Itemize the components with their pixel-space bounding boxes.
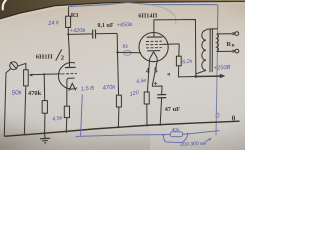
pentode grid g3 dashed	[146, 40, 162, 42]
svg-text:1,5 В: 1,5 В	[81, 86, 95, 93]
transformer T1 primary	[202, 29, 206, 70]
blue ellipse under Kc	[123, 51, 131, 56]
blue bottom line right	[188, 131, 220, 134]
dark table band top-left	[0, 0, 245, 19]
svg-text:6П14П: 6П14П	[138, 12, 157, 19]
blue bottom line left	[76, 135, 164, 137]
wire vertical down to grid resistor	[117, 33, 118, 95]
pentode V2 anode	[147, 36, 163, 38]
plus sign C2	[154, 82, 157, 85]
wire pot wiper to grid	[31, 73, 61, 76]
svg-text:Кс: Кс	[122, 44, 129, 51]
triode V1 envelope arc	[58, 63, 77, 89]
junction rail C2	[159, 124, 161, 126]
pentode V2 envelope	[139, 33, 168, 62]
svg-text:п: п	[167, 72, 170, 77]
blue junction dots	[162, 134, 164, 136]
junction rail R6	[146, 124, 148, 126]
pentode grid g1 dashed	[146, 47, 162, 49]
capacitor C1 0.1uF plates	[93, 30, 96, 39]
wire blue pen vertical right side	[216, 30, 218, 136]
svg-text:5: 5	[154, 67, 158, 75]
svg-text:470к: 470к	[102, 85, 116, 92]
slash of 6Н1П/2	[56, 49, 62, 60]
ground rail 0V	[4, 121, 239, 136]
input jack X1	[10, 62, 18, 70]
wire anode up and to transformer	[154, 20, 196, 77]
blue annotation lines	[76, 51, 220, 143]
svg-text:470k: 470k	[28, 90, 42, 97]
wire g2 extension	[162, 43, 179, 46]
junction rail R2	[65, 131, 67, 133]
wire grid resistor drop	[43, 74, 46, 100]
potentiometer R1 body	[24, 70, 29, 86]
pentode grid g2 dashed	[146, 43, 163, 45]
wire secondary top tap	[217, 33, 233, 35]
svg-text:40к: 40к	[171, 127, 180, 133]
resistor R5 470k	[42, 101, 47, 114]
blue pill 40k	[170, 132, 182, 137]
wire cathode to R cathode	[66, 85, 68, 107]
wire R3 bottom to node	[67, 27, 69, 34]
page background	[0, 0, 245, 150]
wire primary bottom to anode node	[196, 70, 206, 73]
blue handwritten annotations	[11, 20, 230, 148]
pentode cathode	[147, 50, 160, 52]
transformer core	[210, 28, 212, 72]
wire left border ground	[4, 69, 10, 137]
blue vertical from cathode	[81, 94, 83, 135]
svg-text:6Н1П: 6Н1П	[36, 54, 53, 61]
capacitor C2 47uF plates	[157, 95, 166, 98]
resistor R7 screen	[176, 56, 181, 66]
wire pot bottom to rail	[24, 86, 25, 135]
heater V2	[150, 52, 157, 59]
wire cathode corner to cap	[152, 86, 162, 95]
junction rail R5	[44, 132, 46, 134]
heater V1	[69, 83, 76, 90]
blue link to pill	[163, 133, 188, 136]
transformer secondary	[217, 34, 219, 52]
svg-text:+450в: +450в	[117, 22, 133, 29]
wire anode lead V1	[68, 34, 69, 67]
blue lower bracket	[163, 134, 188, 143]
wire grid lead V2	[118, 51, 141, 53]
resistor R2 cathode V1	[64, 106, 69, 117]
pot wiper arrowhead	[29, 74, 33, 77]
junction B+ node	[195, 75, 198, 78]
triode V1 anode bar	[65, 66, 76, 68]
B+ arrow	[196, 75, 221, 77]
resistor R6 120 cathode	[144, 92, 149, 104]
junction anode R3 node	[67, 33, 69, 35]
blue pen slip curve	[150, 5, 176, 24]
svg-text:50к: 50к	[11, 89, 22, 97]
resistor R4 470k grid leak	[116, 95, 121, 107]
junction rail R4	[117, 126, 119, 128]
svg-text:6,2к: 6,2к	[182, 59, 193, 66]
highlight strip below edge	[0, 3, 245, 21]
terminal bottom	[235, 49, 239, 53]
wire node to coupling cap	[68, 33, 92, 36]
svg-text:R3: R3	[71, 12, 79, 19]
wire primary top connector	[206, 28, 217, 31]
resistor R3	[66, 16, 71, 27]
svg-text:+250В: +250В	[213, 65, 230, 72]
wire C2 to rail	[160, 98, 161, 125]
wire jack to pot	[17, 63, 26, 69]
junction rail pot	[23, 133, 25, 135]
wire pin5 leg	[152, 58, 157, 86]
junction wiper node	[43, 73, 45, 75]
ground symbol	[40, 133, 50, 143]
svg-text:н: н	[232, 43, 235, 48]
wire pin4 leg	[147, 58, 149, 92]
wire secondary bottom tap	[217, 50, 233, 52]
wire cap to corner	[96, 32, 118, 34]
wire R4 to ground rail	[117, 107, 120, 127]
wire R6 to rail	[146, 104, 148, 126]
svg-text:24 k: 24 k	[47, 20, 60, 27]
white reflection blob	[3, 0, 6, 9]
printed labels	[28, 12, 236, 123]
svg-text:+420в: +420в	[70, 28, 86, 35]
svg-text:4: 4	[146, 67, 150, 75]
svg-text:47 uF: 47 uF	[165, 106, 181, 113]
svg-text:0: 0	[232, 115, 236, 123]
junction dots	[23, 33, 197, 135]
terminal top	[235, 32, 239, 36]
wire R7 down and to B+ node	[178, 66, 196, 77]
svg-text:0,1 uF: 0,1 uF	[98, 23, 114, 29]
triode V1 grid dashed	[62, 73, 78, 75]
blue blob on vertical	[216, 113, 219, 117]
wire R3 top lead	[68, 7, 70, 17]
wire screen to resistor	[178, 44, 180, 56]
blue arrow	[206, 139, 211, 142]
wire R5 to rail	[44, 113, 46, 133]
junction grid V2 node	[116, 51, 118, 53]
wire B+ top rail (blue pen)	[69, 3, 218, 30]
triode V1 cathode	[67, 78, 75, 84]
wire R2 to rail	[65, 118, 68, 132]
page edge shadow line	[0, 2, 245, 19]
